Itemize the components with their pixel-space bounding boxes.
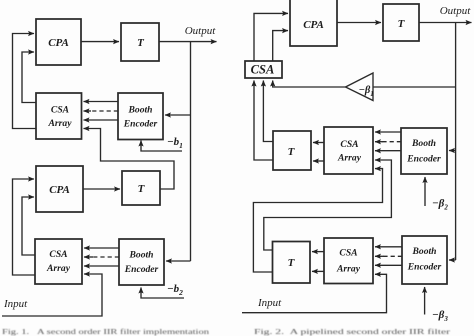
block CSA Array (second section) <box>35 239 82 284</box>
svg-text:T: T <box>138 183 146 195</box>
wire Booth1 to CSA Array1 dashed <box>382 141 401 143</box>
svg-text:CSA: CSA <box>49 249 67 260</box>
svg-text:T: T <box>398 18 406 30</box>
wire beta1 amplifier to CSA <box>273 81 346 88</box>
wire Booth1 to CSA1 dashed <box>90 110 118 112</box>
wire -beta2 coefficient input to Booth1 <box>424 177 426 206</box>
wire CSA2 carry output to CPA2 input <box>13 179 36 275</box>
wire feedback to beta1 amplifier <box>373 86 456 88</box>
svg-text:CPA: CPA <box>303 19 324 31</box>
svg-text:CSA: CSA <box>51 105 69 116</box>
svg-text:Encoder: Encoder <box>407 262 442 273</box>
svg-text:CSA: CSA <box>339 248 357 259</box>
block Booth Encoder (second section) <box>119 239 164 285</box>
svg-text:−b1: −b1 <box>167 136 183 150</box>
wire -b2 coefficient input to Booth2 <box>141 288 184 299</box>
svg-text:Array: Array <box>337 153 362 164</box>
block Booth Encoder (stage2) <box>402 236 447 284</box>
block T (output delay) <box>383 4 419 41</box>
block T (stage2 delay) <box>273 242 311 284</box>
svg-text:Booth: Booth <box>411 138 436 149</box>
svg-text:Booth: Booth <box>412 246 437 257</box>
wire CSA Array1 to T1 (2) <box>313 160 324 162</box>
wire feedback arm to Booth2 <box>166 260 191 262</box>
svg-text:Output: Output <box>440 5 472 17</box>
wire Booth1 to CSA1 (1) <box>84 101 119 103</box>
block Booth Encoder (stage1) <box>401 128 447 174</box>
wire Booth1 to CSA Array1 (3) <box>375 150 401 152</box>
wire CSA Array1 to T1 (1) <box>313 142 324 144</box>
wire output feedback vertical <box>190 42 192 261</box>
wire Booth2 to CSA2 (1) <box>84 247 119 249</box>
wire T1 to Output <box>159 41 217 43</box>
svg-text:T: T <box>288 146 296 158</box>
wire feedback arm to Booth2 <box>449 259 456 261</box>
svg-text:T: T <box>137 37 145 49</box>
block CPA (second section adder) <box>36 166 83 212</box>
wire CSA out to CPA upper input <box>254 13 288 61</box>
wire Booth2 to CSA2 dashed <box>92 256 119 258</box>
wire CSA1 sum output to CPA1 input <box>22 52 36 103</box>
svg-text:Array: Array <box>336 264 361 275</box>
block CPA (pipelined) <box>290 0 337 46</box>
wire CSA out to CPA lower input <box>273 31 288 61</box>
svg-text:Booth: Booth <box>129 250 154 261</box>
wire output feedback vertical <box>455 23 457 261</box>
wire Booth2 to CSA2 (3) <box>84 265 119 267</box>
svg-text:Encoder: Encoder <box>123 119 158 130</box>
svg-text:−β3: −β3 <box>432 309 448 323</box>
wire T2 output to CSA1 input <box>84 129 175 190</box>
wire T1 lower output to CSA <box>254 81 273 161</box>
wire CPA2 to T2 <box>83 188 120 190</box>
block CSA Array (stage2) <box>324 238 373 284</box>
wire CPA1 to T1 <box>81 41 119 43</box>
svg-text:−β2: −β2 <box>432 198 448 212</box>
wire T2 upper output to CSA Array1 <box>264 160 392 250</box>
svg-text:Booth: Booth <box>128 105 153 116</box>
svg-text:CSA: CSA <box>251 63 275 77</box>
block T (stage1 delay) <box>273 131 311 170</box>
block CSA Array (stage1) <box>324 127 373 174</box>
block T (second section delay) <box>122 171 160 205</box>
svg-text:Input: Input <box>257 297 282 309</box>
svg-text:Fig. 1. A second order IIR f: Fig. 1. A second order IIR filter implem… <box>2 327 209 336</box>
block CPA (first section adder) <box>36 19 81 65</box>
svg-text:Encoder: Encoder <box>124 264 159 275</box>
wire Input to CSA Array2 <box>242 274 387 312</box>
wire Booth1 to CSA1 (3) <box>84 119 119 121</box>
wire feedback arm to Booth1 <box>165 114 191 116</box>
block Booth Encoder (first section) <box>118 93 163 140</box>
wire CSA Array2 to T2 (1) <box>312 251 324 253</box>
block CSA (3:2 compressor) <box>245 61 282 78</box>
wire CSA2 sum output to CPA2 input <box>22 197 35 255</box>
svg-text:Encoder: Encoder <box>406 154 441 165</box>
wire -b1 coefficient input to Booth1 <box>141 141 182 152</box>
svg-text:T: T <box>288 257 296 269</box>
wire CSA Array2 to T2 (2) <box>312 270 324 272</box>
svg-text:Array: Array <box>48 118 73 129</box>
wire Booth1 to CSA Array1 (1) <box>375 131 401 133</box>
svg-text:CSA: CSA <box>340 139 358 150</box>
svg-text:CPA: CPA <box>48 37 69 49</box>
wire feedback arm to Booth1 <box>449 150 456 152</box>
wire Input to CSA2 input <box>2 274 102 316</box>
svg-text:CPA: CPA <box>49 184 70 196</box>
svg-text:Fig. 2. A pipelined second or: Fig. 2. A pipelined second order IIR fil… <box>254 327 451 336</box>
wire -beta3 coefficient input to Booth2 <box>424 287 426 315</box>
svg-text:−b2: −b2 <box>167 283 183 297</box>
svg-text:Output: Output <box>185 25 217 37</box>
block CSA Array (first section) <box>36 93 82 139</box>
wire Booth2 to CSA Array2 (1) <box>375 246 402 248</box>
wire CPA to T <box>337 22 381 24</box>
svg-text:Array: Array <box>46 263 71 274</box>
wire Booth2 to CSA Array2 (3) <box>375 264 402 266</box>
wire CSA1 carry output to CPA1 input <box>13 34 37 129</box>
wire T2 lower output to CSA Array1 <box>253 169 382 272</box>
wire Booth2 to CSA Array2 dashed <box>383 255 402 257</box>
wire T1 upper output to CSA <box>263 81 273 142</box>
block T (first section delay) <box>121 23 159 61</box>
svg-text:Input: Input <box>3 298 28 310</box>
wire T to Output <box>419 22 472 24</box>
amplifier -beta1 triangle <box>346 73 374 101</box>
